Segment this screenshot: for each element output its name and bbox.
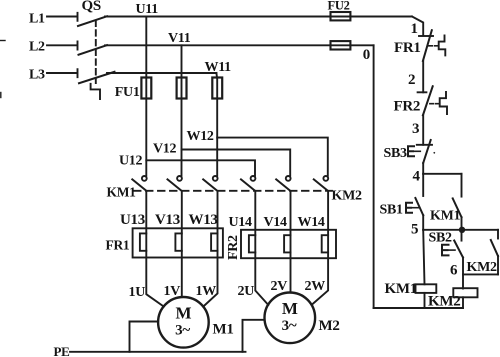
fuse FU2 a bbox=[331, 12, 351, 20]
switch QS pole 2 blade bbox=[79, 45, 108, 55]
relay contact FR1 (NC) blade bbox=[423, 30, 432, 61]
switch QS linkage (dashed) bbox=[95, 21, 97, 84]
svg-text:V11: V11 bbox=[168, 31, 191, 46]
wire line 1 (L1 bus) bbox=[105, 16, 412, 18]
svg-text:1U: 1U bbox=[129, 285, 146, 300]
contactor KM1 main contact 3 bbox=[203, 176, 217, 191]
wire control bottom rail bbox=[374, 307, 463, 309]
switch QS pole 3 blade bbox=[79, 72, 115, 83]
svg-text:3~: 3~ bbox=[175, 323, 190, 339]
svg-text:W14: W14 bbox=[298, 215, 325, 230]
wire KM2 pole3 to motor M2 (2W) bbox=[312, 191, 329, 305]
svg-text:3~: 3~ bbox=[282, 318, 297, 334]
svg-text:M: M bbox=[176, 304, 192, 323]
switch QS pole 1 blade bbox=[78, 16, 107, 26]
wire L3 lead bbox=[47, 69, 78, 77]
contactor KM1 aux contact upper lead bbox=[461, 174, 463, 197]
stray mark left edge a bbox=[0, 40, 5, 42]
wire SB1 to node 5 bbox=[422, 215, 424, 230]
svg-text:U12: U12 bbox=[119, 154, 143, 169]
svg-text:5: 5 bbox=[411, 222, 418, 238]
svg-text:KM1: KM1 bbox=[107, 185, 137, 200]
svg-text:SB2: SB2 bbox=[429, 231, 453, 246]
svg-text:PE: PE bbox=[54, 344, 70, 357]
contactor KM1 aux contact blade bbox=[453, 198, 462, 217]
thermal relay FR2 heater b bbox=[284, 235, 290, 252]
svg-text:FR2: FR2 bbox=[226, 235, 241, 260]
contactor KM1 main contact 2 bbox=[168, 176, 182, 191]
wire KM2 coil upper lead bbox=[462, 274, 464, 288]
svg-text:6: 6 bbox=[450, 263, 458, 279]
relay contact FR2 dash link bbox=[430, 103, 440, 105]
svg-text:KM2: KM2 bbox=[428, 294, 460, 310]
button SB1 (NO) upper lead bbox=[422, 174, 424, 196]
svg-text:W11: W11 bbox=[205, 60, 232, 75]
svg-text:M2: M2 bbox=[319, 318, 340, 334]
switch QS handle bbox=[91, 84, 100, 99]
wire V11 vertical bbox=[181, 45, 183, 175]
svg-text:1V: 1V bbox=[164, 284, 181, 299]
relay contact FR2 (NC) tick bbox=[418, 91, 427, 93]
wire KM1 pole3 to motor M1 (1W) bbox=[203, 191, 217, 307]
wire L1 lead bbox=[47, 13, 78, 21]
button SB3 dash link bbox=[415, 150, 421, 152]
mechanical linkage KM1-KM2 (dashed) bbox=[134, 190, 332, 192]
wire node 2 segment bbox=[422, 61, 424, 92]
wire SB2 to node 6 bbox=[462, 258, 464, 275]
wire node 3 segment bbox=[422, 115, 424, 145]
button SB1 dash link bbox=[413, 207, 419, 209]
button SB2 dash link bbox=[449, 249, 455, 251]
svg-text:SB1: SB1 bbox=[380, 203, 404, 218]
svg-text:U11: U11 bbox=[136, 2, 159, 17]
svg-text:1W: 1W bbox=[196, 284, 217, 299]
fuse FU1 c bbox=[212, 78, 222, 99]
contactor KM2 main contact 1 bbox=[241, 176, 255, 191]
relay contact FR2 thermal element bbox=[440, 92, 447, 114]
wire KM2 coil to rail bbox=[462, 297, 464, 308]
svg-text:KM1: KM1 bbox=[385, 281, 417, 297]
svg-text:L1: L1 bbox=[29, 12, 45, 27]
svg-text:4: 4 bbox=[413, 169, 421, 185]
svg-text:M: M bbox=[282, 299, 298, 318]
svg-text:U13: U13 bbox=[120, 212, 145, 228]
relay contact FR1 thermal element bbox=[439, 35, 446, 55]
button SB3 (NC) tick bbox=[417, 144, 432, 146]
button SB3 actuator E bbox=[408, 146, 414, 156]
wire control left rail (0) bbox=[373, 45, 375, 308]
thermal relay FR1 heater b bbox=[175, 233, 181, 250]
svg-text:FR1: FR1 bbox=[106, 238, 130, 253]
svg-text:2U: 2U bbox=[238, 284, 255, 299]
wire KM2 pole2 to motor M2 (2V) bbox=[290, 191, 292, 293]
wire W11 vertical bbox=[215, 73, 218, 176]
thermal relay FR2 heater a bbox=[249, 235, 255, 252]
thermal relay FR1 heater c bbox=[211, 233, 217, 250]
wire node 6 horizontal bbox=[463, 273, 498, 275]
stray dot near SB3 bbox=[433, 152, 435, 154]
thermal relay FR1 box bbox=[133, 228, 223, 257]
button SB2 (NO) blade bbox=[454, 241, 463, 258]
svg-text:M1: M1 bbox=[213, 322, 234, 338]
wire KM1 coil branch bbox=[423, 230, 424, 284]
coil KM1 bbox=[416, 284, 437, 293]
relay contact FR2 (NC) blade bbox=[423, 86, 433, 115]
svg-text:U14: U14 bbox=[229, 215, 253, 230]
svg-text:2: 2 bbox=[408, 72, 415, 88]
contactor KM2 aux contact blade bbox=[491, 240, 498, 256]
coil KM2 bbox=[453, 288, 477, 297]
svg-text:W12: W12 bbox=[187, 129, 214, 144]
svg-text:0: 0 bbox=[363, 47, 370, 63]
svg-text:3: 3 bbox=[412, 121, 419, 137]
thermal relay FR1 heater a bbox=[140, 233, 146, 250]
contactor KM2 main contact 2 bbox=[276, 176, 290, 191]
svg-text:L2: L2 bbox=[29, 40, 45, 55]
svg-text:V13: V13 bbox=[155, 212, 180, 228]
contactor KM1 aux contact lower lead bbox=[461, 217, 463, 230]
wire line 3 (L3 bus) bbox=[107, 72, 216, 74]
button SB1 (NO) blade bbox=[415, 198, 423, 215]
button SB2 (NO) upper lead bbox=[461, 230, 463, 241]
wire PE riser to M1 bbox=[130, 322, 159, 352]
svg-text:V14: V14 bbox=[264, 215, 288, 230]
motor M2 circle bbox=[265, 293, 316, 344]
fuse FU1 a bbox=[141, 78, 151, 99]
svg-text:1: 1 bbox=[411, 21, 418, 37]
svg-text:KM2: KM2 bbox=[332, 189, 363, 204]
wire V12 tap bbox=[182, 150, 291, 176]
wire KM1 coil to rail bbox=[424, 293, 426, 308]
svg-text:SB3: SB3 bbox=[384, 146, 408, 161]
svg-text:V12: V12 bbox=[153, 142, 177, 157]
wire PE bus bbox=[70, 351, 246, 353]
svg-text:FU2: FU2 bbox=[328, 0, 350, 13]
svg-text:FR2: FR2 bbox=[394, 99, 421, 115]
wire U12 tap bbox=[146, 160, 255, 175]
thermal relay FR2 heater c bbox=[322, 235, 328, 252]
contactor KM1 main contact 1 bbox=[132, 176, 146, 191]
svg-text:2V: 2V bbox=[271, 279, 288, 294]
relay contact FR1 dash link bbox=[429, 45, 439, 47]
stray mark left edge b bbox=[0, 93, 2, 98]
wire KM1 pole1 to motor M1 (1U) bbox=[146, 191, 164, 307]
button SB3 (NC) blade bbox=[423, 140, 431, 163]
svg-text:FR1: FR1 bbox=[394, 40, 421, 56]
wire node 4 branch bbox=[423, 173, 461, 175]
wire node 5 horizontal bbox=[423, 229, 498, 231]
relay contact FR1 (NC) tick bbox=[419, 35, 433, 37]
wire KM1 pole2 to motor M1 (1V) bbox=[181, 191, 183, 297]
svg-text:W13: W13 bbox=[189, 212, 218, 228]
wire U11 vertical bbox=[145, 17, 147, 176]
contactor KM2 aux contact upper lead bbox=[497, 230, 499, 239]
wire node 4 segment bbox=[422, 163, 424, 174]
junction node 5 dot bbox=[459, 227, 465, 233]
button SB2 actuator E bbox=[442, 245, 449, 256]
wire KM2 pole1 to motor M2 (2U) bbox=[255, 191, 268, 305]
svg-text:L3: L3 bbox=[29, 68, 45, 83]
contactor KM2 aux contact lower lead bbox=[497, 256, 499, 274]
wire L2 lead bbox=[47, 42, 78, 50]
button SB1 actuator E bbox=[406, 203, 412, 213]
thermal relay FR2 box bbox=[241, 230, 336, 258]
svg-text:2W: 2W bbox=[305, 279, 326, 294]
wire PE riser to M2 bbox=[243, 320, 265, 352]
svg-text:KM2: KM2 bbox=[467, 260, 498, 275]
svg-text:QS: QS bbox=[82, 0, 101, 14]
wire line 2 (L2 bus) bbox=[105, 44, 374, 46]
wire line1 corner into control bbox=[412, 17, 423, 35]
fuse FU1 b bbox=[177, 78, 187, 99]
svg-text:FU1: FU1 bbox=[115, 85, 140, 100]
svg-text:KM1: KM1 bbox=[430, 209, 461, 224]
contactor KM2 main contact 3 bbox=[314, 176, 328, 191]
fuse FU2 b bbox=[331, 41, 351, 49]
wire W12 tap bbox=[217, 138, 328, 176]
motor M1 circle bbox=[158, 297, 209, 348]
